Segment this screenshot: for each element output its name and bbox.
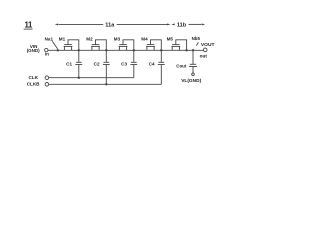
label 11b xyxy=(177,23,187,29)
node 3 junction xyxy=(133,49,135,51)
ground terminal VL xyxy=(192,73,195,76)
node Na1 label xyxy=(45,36,54,41)
dimension line 11b right arrowhead xyxy=(202,23,205,25)
label M3 xyxy=(114,36,121,41)
capacitor C3 xyxy=(130,50,137,77)
clock terminal CLKB xyxy=(45,83,49,87)
dimension line 11a left arrowhead xyxy=(55,23,58,25)
label VOUT xyxy=(201,42,215,48)
dimension line 11a left shaft xyxy=(59,23,104,25)
clock terminal CLK xyxy=(45,76,49,80)
input terminal in xyxy=(45,48,48,51)
svg-text:CLKB: CLKB xyxy=(27,81,40,86)
label VIN (GND) xyxy=(27,44,40,53)
node 4 junction xyxy=(160,49,162,51)
wire CLK line xyxy=(49,77,134,79)
label C3 xyxy=(121,61,127,66)
transistor M4 xyxy=(146,40,161,51)
svg-text:C1: C1 xyxy=(66,61,72,66)
label in xyxy=(45,52,49,57)
svg-text:C2: C2 xyxy=(94,61,100,66)
dimension line 11b left arrowhead xyxy=(171,23,174,25)
node Na1 junction xyxy=(57,49,59,51)
node 1 junction xyxy=(78,49,80,51)
svg-text:11a: 11a xyxy=(105,23,115,29)
label M4 xyxy=(141,36,148,41)
svg-text:M1: M1 xyxy=(59,36,66,41)
underline of figure label 11 xyxy=(24,28,33,30)
svg-text:M4: M4 xyxy=(141,36,148,41)
dimension line 11b right shaft xyxy=(189,23,202,25)
node Nb5 leader xyxy=(196,42,198,45)
svg-text:M3: M3 xyxy=(114,36,121,41)
label M2 xyxy=(86,36,93,41)
wire CLKB line xyxy=(49,83,162,85)
svg-text:Cout: Cout xyxy=(176,63,187,68)
transistor M5 xyxy=(171,40,186,51)
label M5 xyxy=(167,36,174,41)
transistor M1 xyxy=(64,40,79,51)
transistor M2 xyxy=(91,40,106,51)
capacitor Cout xyxy=(189,50,197,73)
junction C1-CLK xyxy=(78,77,80,79)
svg-text:out: out xyxy=(200,54,208,59)
label M1 xyxy=(59,36,66,41)
label CLKB xyxy=(27,81,40,86)
svg-text:VL(GND): VL(GND) xyxy=(181,78,201,84)
svg-text:Nb5: Nb5 xyxy=(192,36,201,41)
junction C2-CLKB xyxy=(105,83,107,85)
junction Cout-rail xyxy=(192,49,194,51)
label out xyxy=(200,54,208,59)
dimension line 11a right shaft xyxy=(117,23,167,25)
node 5 junction xyxy=(185,49,187,51)
node 2 junction xyxy=(105,49,107,51)
svg-text:C3: C3 xyxy=(121,61,127,66)
label CLK xyxy=(29,75,39,80)
capacitor C4 xyxy=(158,50,165,84)
svg-text:in: in xyxy=(45,52,49,57)
svg-text:M5: M5 xyxy=(167,36,174,41)
label 11a xyxy=(105,23,115,29)
svg-text:C4: C4 xyxy=(149,61,155,66)
label Cout xyxy=(176,63,187,68)
node Nb5 label xyxy=(192,36,201,41)
svg-text:CLK: CLK xyxy=(29,75,39,80)
label C1 xyxy=(66,61,72,66)
svg-text:11b: 11b xyxy=(177,23,187,29)
figure label 11 xyxy=(24,20,33,29)
label C4 xyxy=(149,61,155,66)
label VL(GND) xyxy=(181,78,201,84)
capacitor C1 xyxy=(75,50,82,77)
svg-text:11: 11 xyxy=(24,20,33,29)
svg-text:Na1: Na1 xyxy=(45,36,54,41)
dimension line 11a right arrowhead xyxy=(167,23,170,25)
transistor M3 xyxy=(119,40,134,51)
output terminal out xyxy=(203,48,207,52)
label C2 xyxy=(94,61,100,66)
svg-text:(GND): (GND) xyxy=(27,48,40,53)
capacitor C2 xyxy=(103,50,110,84)
wire main rail xyxy=(48,49,204,51)
svg-text:M2: M2 xyxy=(86,36,93,41)
node Na1 leader xyxy=(52,41,57,49)
svg-text:VOUT: VOUT xyxy=(201,42,215,48)
